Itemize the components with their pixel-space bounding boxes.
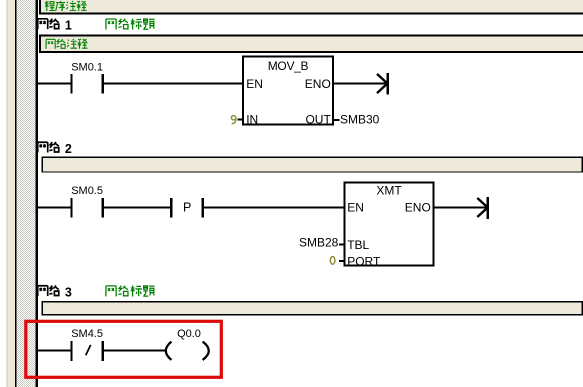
- wire contact to MOV_B: [104, 83, 242, 85]
- svg-text:SMB28: SMB28: [299, 235, 339, 249]
- wire rail to contact SM4.5: [38, 350, 70, 352]
- wire ENO out: [334, 83, 387, 85]
- wire to coil: [104, 350, 165, 352]
- svg-text:OUT: OUT: [305, 112, 331, 126]
- svg-text:P: P: [183, 201, 191, 215]
- wire rail to contact SM0.1: [38, 83, 70, 85]
- svg-text:SM0.1: SM0.1: [71, 61, 103, 73]
- svg-text:XMT: XMT: [376, 183, 402, 197]
- program comment text 程序注释: [45, 1, 87, 11]
- network 1 label 网络 1: [38, 19, 59, 30]
- svg-text:EN: EN: [347, 201, 364, 215]
- contact P (positive edge): [170, 198, 204, 218]
- svg-text:2: 2: [65, 142, 72, 156]
- tick OUT: [334, 119, 340, 121]
- svg-text:ENO: ENO: [405, 201, 431, 215]
- contact SM4.5 (NC): [70, 341, 103, 361]
- svg-text:MOV_B: MOV_B: [268, 59, 309, 73]
- network 3 label 网络 3: [38, 286, 59, 297]
- network 2 empty comment bar: [42, 157, 582, 172]
- svg-text:1: 1: [65, 18, 72, 32]
- network 1 title 网络标题: [106, 19, 155, 30]
- NC slash: [86, 345, 91, 355]
- gutter black border: [15, 0, 17, 387]
- network 3 empty comment bar: [42, 302, 582, 315]
- svg-text:SM0.5: SM0.5: [71, 185, 103, 197]
- left power rail: [36, 0, 39, 387]
- selection highlight red box: [26, 321, 222, 377]
- wire rail to contact SM0.5: [38, 207, 70, 209]
- svg-text:TBL: TBL: [347, 238, 369, 252]
- wire to XMT: [204, 207, 343, 209]
- value 9: [231, 116, 235, 124]
- svg-text:3: 3: [65, 285, 72, 299]
- value 0: [330, 257, 335, 265]
- svg-text:IN: IN: [246, 112, 258, 126]
- svg-text:PORT: PORT: [347, 254, 381, 268]
- svg-text:SMB30: SMB30: [340, 113, 380, 127]
- svg-text:EN: EN: [246, 77, 263, 91]
- program comment bar: [39, 0, 583, 15]
- tick TBL: [339, 243, 344, 245]
- wire to P contact: [104, 207, 170, 209]
- wire ENO out: [435, 207, 487, 209]
- network comment text 网络注释: [46, 39, 87, 49]
- network 2 label 网络 2: [38, 142, 59, 153]
- contact SM0.5: [70, 198, 103, 218]
- svg-text:ENO: ENO: [305, 77, 331, 91]
- network 3 title 网络标题: [106, 286, 155, 297]
- svg-text:Q0.0: Q0.0: [177, 328, 201, 340]
- box XMT: [344, 182, 433, 265]
- network comment bar: [39, 34, 583, 53]
- tick IN: [238, 119, 243, 121]
- svg-text:SM4.5: SM4.5: [71, 328, 103, 340]
- contact SM0.1: [70, 74, 103, 94]
- arrow continuation 1: [377, 73, 389, 95]
- selection margin (dithered): [17, 0, 36, 387]
- box MOV_B: [243, 57, 333, 125]
- left gutter beige strip: [7, 0, 16, 387]
- coil Q0.0: [166, 342, 209, 360]
- arrow continuation 2: [477, 197, 489, 219]
- tick PORT: [339, 260, 344, 262]
